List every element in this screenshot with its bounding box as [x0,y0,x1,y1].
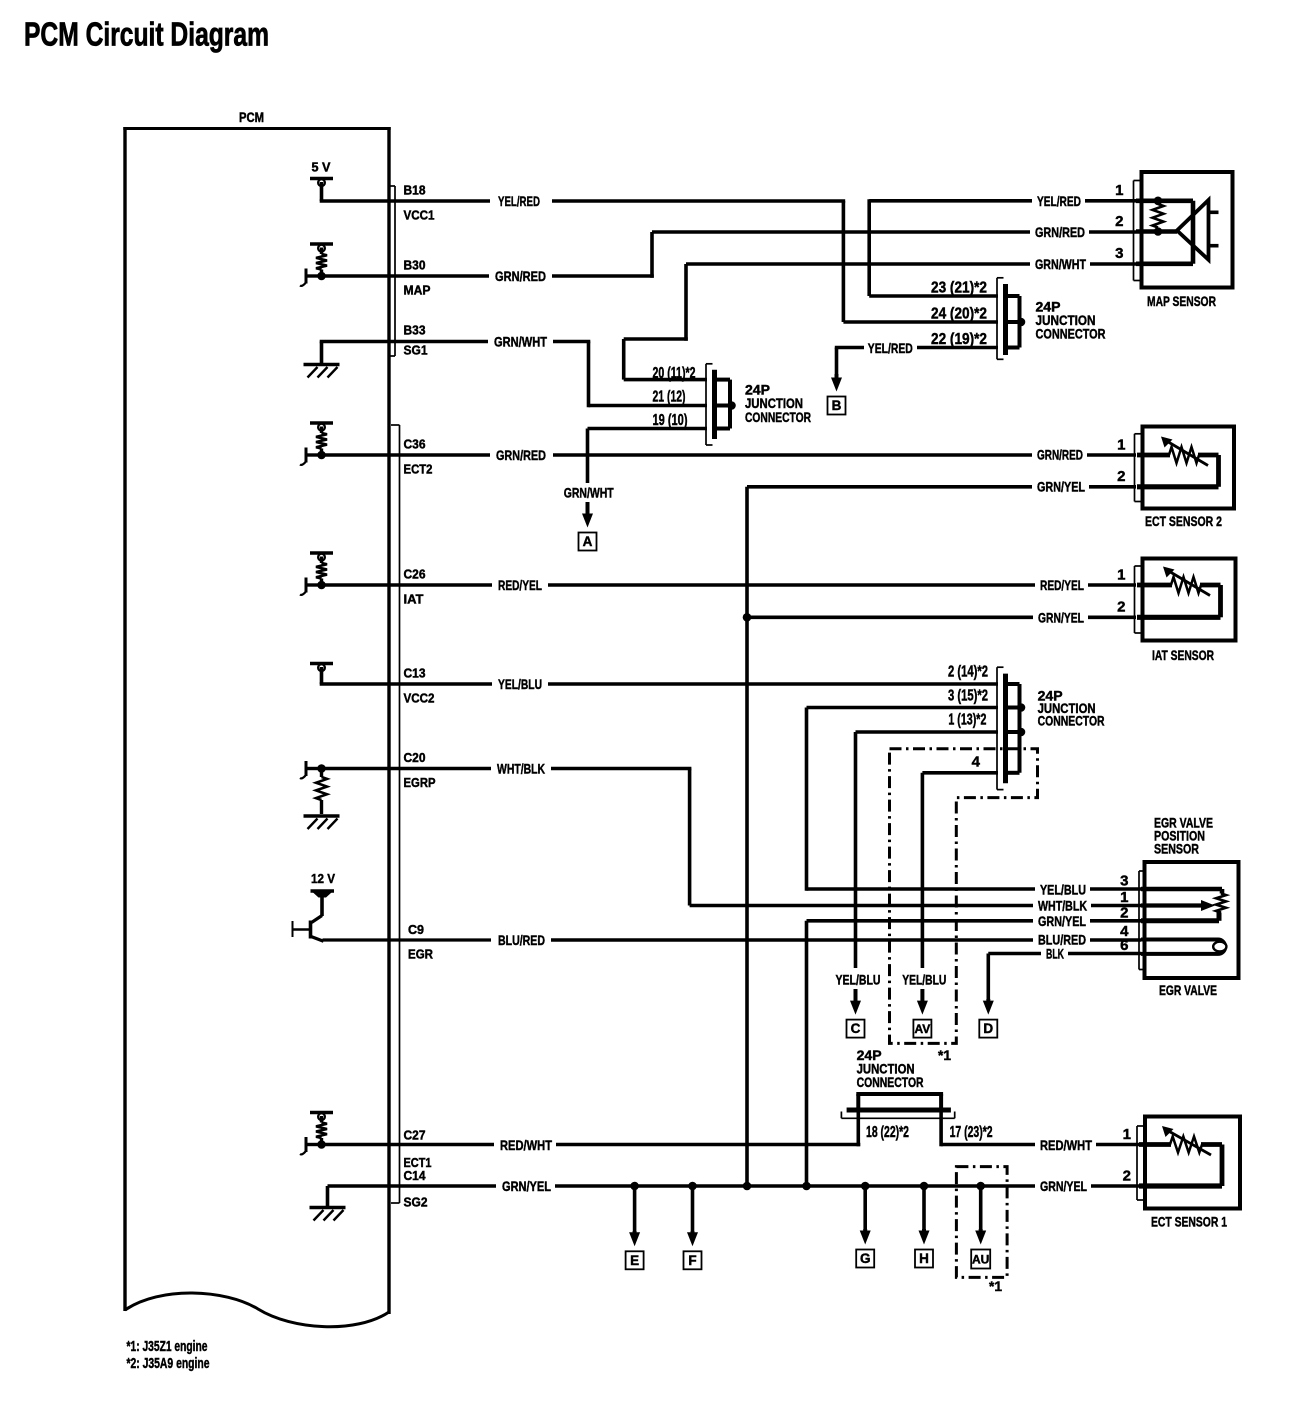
svg-text:3: 3 [1120,873,1128,890]
wire YEL/BLU EGR pin3 row [807,887,1036,891]
wire 20(11)*2 up to MAP pin3 [684,264,688,341]
svg-text:19 (10): 19 (10) [653,412,688,429]
wire 19(10) row [588,427,708,431]
svg-text:C20: C20 [404,750,426,765]
svg-text:ECT SENSOR 1: ECT SENSOR 1 [1151,1214,1227,1230]
svg-text:ECT SENSOR 2: ECT SENSOR 2 [1145,513,1222,529]
svg-text:G: G [860,1251,871,1266]
svg-text:*1: *1 [989,1279,1002,1294]
svg-text:1: 1 [1120,889,1128,906]
svg-text:12 V: 12 V [311,871,335,886]
MAP sensor box [1142,172,1233,288]
wire IAT pin2 GRN/YEL [747,615,1033,619]
connector ref C [854,989,858,1003]
internal probe bar (C27) [306,1143,322,1146]
svg-text:23 (21)*2: 23 (21)*2 [931,280,987,297]
svg-text:2: 2 [1117,599,1125,616]
24P junction connector (middle) [996,667,998,789]
svg-text:VCC2: VCC2 [404,691,435,706]
node B30 junction [317,272,326,281]
internal probe bar (C26) [306,583,322,586]
svg-text:GRN/RED: GRN/RED [1037,447,1083,463]
wire B33 to 21(12) [587,342,591,408]
wire row 4 [922,771,998,775]
connector ref B [835,348,839,378]
svg-text:PCM Circuit Diagram: PCM Circuit Diagram [24,16,269,53]
svg-text:YEL/RED: YEL/RED [498,193,540,209]
svg-text:YEL/BLU: YEL/BLU [836,972,881,988]
node H junction [920,1182,929,1191]
svg-text:*1: J35Z1 engine: *1: J35Z1 engine [127,1339,208,1355]
ground (SG1) [320,342,324,364]
svg-text:WHT/BLK: WHT/BLK [497,761,545,777]
pull-up resistor (C26 internal) [310,551,333,555]
svg-text:BLK: BLK [1046,946,1064,962]
wire C26 row [322,583,493,587]
transistor Q (EGR driver) [312,916,323,923]
svg-text:GRN/YEL: GRN/YEL [1037,479,1085,495]
svg-text:BLU/RED: BLU/RED [498,932,545,948]
EGR position sensor potentiometer [1141,887,1222,892]
wire 22(19)*2 stub to B [835,346,864,350]
wire C9 row [323,938,492,941]
svg-text:B: B [832,398,842,413]
wire GRN/YEL vertical bus [745,487,749,1186]
svg-text:1: 1 [1115,182,1123,199]
svg-text:RED/YEL: RED/YEL [1040,577,1084,593]
svg-text:IAT: IAT [404,592,424,607]
ground (SG2) [328,1184,390,1188]
pull-up resistor (C36 internal) [310,421,333,425]
svg-text:WHT/BLK: WHT/BLK [1038,898,1087,914]
svg-text:SG1: SG1 [404,343,428,358]
wire 1(13)*2 down to C [854,732,858,968]
node F junction [688,1182,697,1191]
svg-text:1: 1 [1117,567,1125,584]
svg-text:C36: C36 [404,437,426,452]
dash-dot variant outline *1 (AV path) [890,749,1038,1044]
svg-text:2: 2 [1120,905,1128,922]
pull-down resistor (C20 internal) [320,769,323,778]
svg-text:EGR: EGR [408,947,434,962]
MAP internal pin3 rail [1136,261,1193,266]
wire C36 row [322,453,491,457]
svg-text:GRN/RED: GRN/RED [495,268,546,284]
node C27 junction [317,1140,326,1149]
svg-text:C27: C27 [404,1128,426,1143]
wire row4 down to AV [921,773,925,968]
MAP internal pin1 rail [1136,199,1193,204]
svg-text:SG2: SG2 [404,1195,428,1210]
wire BLK EGR pin6 to D [988,952,1041,956]
svg-text:GRN/WHT: GRN/WHT [494,334,547,350]
svg-text:CONNECTOR: CONNECTOR [857,1075,924,1090]
wire ECT2 pin2 GRN/YEL [747,485,1032,489]
svg-text:3 (15)*2: 3 (15)*2 [948,688,988,705]
wire C20 WHT/BLK down-over [688,769,692,906]
svg-text:*1: *1 [938,1048,951,1063]
svg-text:GRN/WHT: GRN/WHT [1035,256,1086,272]
wire B18 row [320,199,490,203]
svg-text:AU: AU [972,1253,989,1267]
dash-dot variant outline *1 (AU) [956,1167,1007,1278]
svg-text:EGRP: EGRP [404,775,436,790]
svg-text:GRN/YEL: GRN/YEL [1038,610,1084,626]
svg-text:RED/WHT: RED/WHT [500,1137,552,1153]
ECT sensor 2 box [1143,427,1235,509]
svg-text:2: 2 [1123,1168,1131,1185]
wire 19(10) down to A [586,429,590,484]
svg-text:CONNECTOR: CONNECTOR [1036,327,1106,342]
wire B30 row [322,274,490,278]
internal probe bar (C36) [306,453,322,456]
svg-text:GRN/RED: GRN/RED [496,447,546,463]
svg-text:GRN/YEL: GRN/YEL [1040,1178,1087,1194]
svg-text:*2: J35A9 engine: *2: J35A9 engine [127,1356,210,1372]
wire 20(11)*2 row [624,378,707,382]
svg-text:2: 2 [1115,213,1123,230]
wire 3(15)*2 row [807,706,999,710]
24P junction connector (top right) [996,278,998,360]
svg-text:YEL/RED: YEL/RED [1037,193,1081,209]
svg-text:D: D [983,1021,993,1036]
svg-text:1: 1 [1117,437,1125,454]
IAT internal loop [1137,583,1172,588]
node C20 junction [317,764,326,773]
svg-text:C13: C13 [404,666,426,681]
MAP internal pin2 rail [1136,229,1177,234]
connector ref H [922,1186,926,1231]
wire C20 row [322,767,492,771]
ECT sensor 1 box [1145,1117,1240,1209]
svg-text:21 (12): 21 (12) [653,389,686,406]
IAT sensor box [1143,559,1236,641]
5V supply symbol (C13) [310,662,333,666]
svg-text:B33: B33 [404,323,426,338]
node C36 junction [317,451,326,460]
MAP internal resistor [1153,204,1164,228]
wire B33 row [320,340,488,344]
svg-text:24 (20)*2: 24 (20)*2 [931,306,987,323]
connector ref G [863,1186,867,1231]
connector ref AU [979,1186,983,1231]
internal probe bar (B30) [306,274,322,277]
svg-text:ECT2: ECT2 [404,462,433,477]
svg-text:17 (23)*2: 17 (23)*2 [950,1124,993,1141]
svg-text:GRN/YEL: GRN/YEL [502,1178,551,1194]
svg-text:2: 2 [1117,468,1125,485]
IAT thermistor [1171,577,1201,593]
connector ref E [633,1186,637,1233]
svg-text:C9: C9 [408,922,424,937]
svg-text:1: 1 [1123,1126,1131,1143]
node C26 junction [317,581,326,590]
wire pin 18(22)*2 drop [856,1112,860,1146]
svg-text:F: F [688,1253,696,1268]
wire B18 to 24(20)*2 [842,201,846,322]
node E junction [630,1182,639,1191]
PCM connector C bracket [399,425,401,1203]
wire C27 row [322,1143,495,1147]
EGR valve solenoid loop [1141,940,1225,954]
svg-text:22 (19)*2: 22 (19)*2 [931,331,987,348]
wire B30 to MAP pin2 [650,232,654,278]
connector ref A [586,502,590,516]
svg-text:AV: AV [915,1022,931,1036]
svg-text:SENSOR: SENSOR [1154,841,1199,857]
svg-text:20 (11)*2: 20 (11)*2 [653,365,696,382]
svg-text:RED/WHT: RED/WHT [1040,1137,1092,1153]
node SG2 bus junction [743,1182,752,1191]
PCM connector B bracket [394,186,396,356]
wire GRN/YEL EGR pin2 [807,919,1034,923]
svg-text:MAP: MAP [404,283,431,298]
svg-text:RED/YEL: RED/YEL [498,577,542,593]
pull-up resistor to 5V (B30 internal) [310,242,333,246]
EGR valve box [1145,862,1239,978]
wire MAP pin1 row [869,199,1032,203]
svg-text:18 (22)*2: 18 (22)*2 [866,1124,909,1141]
svg-text:4: 4 [972,754,981,771]
svg-text:YEL/BLU: YEL/BLU [498,676,542,692]
MAP amplifier triangle [1177,200,1209,260]
24P junction connector (left) [705,364,707,445]
svg-text:B18: B18 [404,183,426,198]
ECT2 thermistor [1169,447,1199,463]
wire 1(13)*2 row [856,730,999,734]
svg-text:YEL/BLU: YEL/BLU [1040,882,1086,898]
connector ref D [986,999,990,1003]
svg-text:C14: C14 [404,1168,427,1183]
svg-text:B30: B30 [404,258,426,273]
node IAT pin2 junction [743,613,752,622]
EGR pot wiper arrow (pin 1) [1141,903,1203,907]
svg-text:1 (13)*2: 1 (13)*2 [948,712,986,729]
svg-text:GRN/RED: GRN/RED [1035,224,1085,240]
wire RED/WHT to ECT sensor 1 [941,1143,1035,1147]
ECT1 internal loop [1139,1142,1171,1147]
svg-text:YEL/BLU: YEL/BLU [902,972,946,988]
ECT1 thermistor [1170,1137,1202,1153]
wire pin 17(23)*2 drop [939,1112,943,1146]
svg-text:H: H [919,1251,929,1266]
svg-text:CONNECTOR: CONNECTOR [745,410,811,425]
pull-up resistor (C27 internal) [310,1111,333,1115]
svg-text:CONNECTOR: CONNECTOR [1038,714,1105,729]
wire C14/SG2 row [389,1184,496,1188]
24P junction connector (bottom, horizontal) [856,1092,943,1096]
svg-text:A: A [583,534,593,549]
svg-text:GRN/WHT: GRN/WHT [564,485,614,501]
svg-text:JUNCTION: JUNCTION [745,396,803,411]
svg-text:C: C [851,1021,861,1036]
wire 3(15)*2 down to YEL/BLU row [805,708,809,891]
svg-text:GRN/YEL: GRN/YEL [1038,913,1086,929]
svg-text:IAT SENSOR: IAT SENSOR [1152,647,1214,663]
ECT2 internal loop [1137,453,1170,458]
svg-text:E: E [630,1253,639,1268]
svg-text:YEL/RED: YEL/RED [868,340,913,356]
svg-text:EGR VALVE: EGR VALVE [1159,982,1217,998]
svg-text:2 (14)*2: 2 (14)*2 [948,664,988,681]
svg-text:VCC1: VCC1 [404,208,435,223]
connector ref F [691,1186,695,1233]
internal probe bar (C20) [306,767,322,770]
wire C13/VCC2 row to mid junction connector [320,682,492,686]
node G junction [861,1182,870,1191]
svg-text:5 V: 5 V [312,160,331,175]
svg-text:MAP SENSOR: MAP SENSOR [1147,293,1216,309]
node AU junction [976,1182,985,1191]
wire MAP pin1 to 23(21)*2 [867,199,871,296]
svg-text:3: 3 [1115,245,1123,262]
svg-text:6: 6 [1120,937,1128,954]
svg-text:C26: C26 [404,567,426,582]
connector ref AV [920,989,924,1003]
svg-text:PCM: PCM [239,110,264,125]
